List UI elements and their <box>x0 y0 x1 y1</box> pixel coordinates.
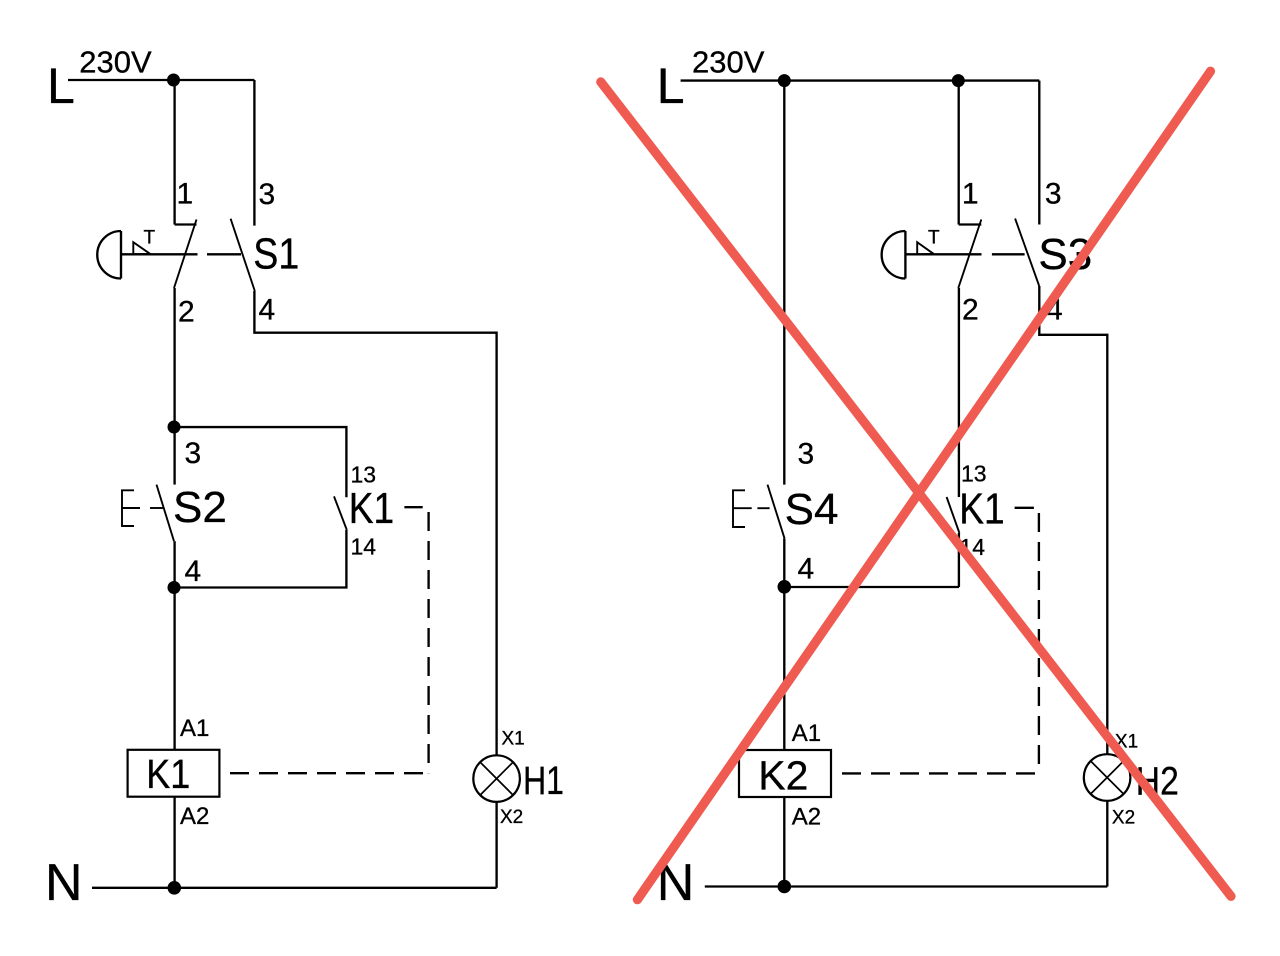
wire L rail (right) <box>681 79 1040 81</box>
svg-text:K2: K2 <box>758 753 808 799</box>
svg-text:K1: K1 <box>146 751 190 797</box>
wire S4 pin4 drop <box>783 538 785 587</box>
svg-text:H1: H1 <box>523 759 564 803</box>
junction node S4/K1 bottom <box>778 580 792 594</box>
link dash at K1 contact <box>404 506 422 508</box>
wire S2 pin4 drop <box>173 541 175 587</box>
turn-reset triangle (S1) <box>133 242 150 254</box>
red cross stroke 2 <box>637 71 1210 900</box>
pushbutton S1 NO contact blade <box>231 219 255 291</box>
svg-text:230V: 230V <box>692 45 765 80</box>
wire S1 pin2 drop <box>173 288 175 427</box>
junction node S2 top <box>168 421 181 434</box>
svg-text:3: 3 <box>185 437 202 470</box>
relay coil K2 box <box>739 750 831 797</box>
wire N rail (right) <box>705 885 1108 887</box>
wire S3 pin2 to K1 contact pin13 <box>958 288 960 497</box>
actuator link dash (S4) <box>757 507 769 509</box>
svg-text:X2: X2 <box>1112 808 1135 829</box>
pushbutton S1 NC contact blade <box>174 220 197 289</box>
wire K1 contact pin14 drop (right) <box>958 533 960 587</box>
svg-text:3: 3 <box>1045 178 1062 211</box>
svg-text:L: L <box>47 58 75 114</box>
svg-text:T: T <box>928 227 940 248</box>
svg-text:4: 4 <box>798 553 815 586</box>
dashed linkage vertical (right) <box>1038 513 1040 773</box>
wire L rail (left) <box>68 79 254 81</box>
wire S2 pin3 drop <box>173 427 175 485</box>
svg-text:K1: K1 <box>959 485 1005 534</box>
relay contact K1 blade <box>334 496 347 530</box>
dashed linkage vertical (K1) <box>427 512 429 773</box>
pushbutton S4 manual actuator E <box>733 490 752 527</box>
junction node L/S4 (right) <box>778 74 791 87</box>
pushbutton S4 NO blade <box>768 485 785 539</box>
pushbutton S3 NO contact blade <box>1015 219 1039 287</box>
wire S4 pin3 drop from L <box>783 81 785 485</box>
pushbutton S3 NC contact seat <box>959 223 982 225</box>
lamp H2 <box>1084 754 1131 801</box>
wire S1 pin3 drop <box>253 80 255 226</box>
actuator stem (S1) <box>121 253 198 255</box>
junction node L/S3 (right) <box>952 74 965 87</box>
wire lamp H1 bottom <box>495 802 497 888</box>
svg-text:A1: A1 <box>180 715 209 742</box>
wire S1 pin1 drop <box>173 80 175 225</box>
pushbutton S2 NO blade <box>157 485 175 542</box>
svg-text:1: 1 <box>177 178 194 211</box>
dashed linkage horizontal (right) <box>842 772 1035 774</box>
mechanical linkage dash (S3) <box>992 253 1025 255</box>
svg-text:2: 2 <box>962 294 979 327</box>
junction node S2 bottom <box>168 581 181 594</box>
link dash at K1 contact (right) <box>1015 507 1034 509</box>
svg-text:230V: 230V <box>79 45 152 80</box>
svg-text:X2: X2 <box>500 807 523 828</box>
junction node N (right) <box>778 880 792 894</box>
svg-text:3: 3 <box>259 178 276 211</box>
relay contact K1 blade (right) <box>947 497 960 533</box>
pushbutton S3 NC contact blade <box>958 220 981 289</box>
svg-text:A2: A2 <box>180 803 209 830</box>
turn-reset triangle (S3) <box>917 242 933 254</box>
svg-text:A2: A2 <box>792 804 821 831</box>
svg-text:A1: A1 <box>792 720 821 747</box>
wire S3 pin4 to lamp branch (right) <box>1039 286 1107 755</box>
svg-text:2: 2 <box>178 296 195 329</box>
dashed linkage horizontal (K1) <box>230 772 424 774</box>
mushroom head actuator (S3) <box>882 231 906 279</box>
svg-text:N: N <box>45 854 83 912</box>
wire branch bottom (right) <box>784 586 959 588</box>
svg-text:S2: S2 <box>173 483 227 532</box>
svg-text:S1: S1 <box>253 230 299 279</box>
svg-text:13: 13 <box>961 461 987 487</box>
pushbutton S1 NC contact seat <box>175 223 197 225</box>
wire coil K2 to N <box>783 797 785 887</box>
red cross stroke 1 <box>601 82 1231 896</box>
svg-text:3: 3 <box>798 438 815 471</box>
wire lamp H2 bottom <box>1106 801 1108 887</box>
svg-text:K1: K1 <box>349 484 395 533</box>
wire N rail (left) <box>92 887 497 889</box>
svg-text:S4: S4 <box>785 485 839 534</box>
svg-text:X1: X1 <box>502 729 525 750</box>
wire S1 pin4 to lamp branch <box>254 291 496 755</box>
junction node N (left) <box>168 881 182 895</box>
actuator stem (S3) <box>905 253 981 255</box>
svg-text:14: 14 <box>351 534 377 560</box>
pushbutton S2 manual actuator E <box>122 490 140 526</box>
wire K1 contact pin14 / parallel branch bottom <box>173 530 346 588</box>
relay coil K1 box <box>128 750 220 797</box>
svg-text:L: L <box>657 58 685 114</box>
wire to coil K1 A1 <box>173 588 175 750</box>
mechanical linkage dash (S1) <box>207 253 241 255</box>
svg-text:4: 4 <box>185 555 202 588</box>
wire coil K1 to N <box>173 797 175 888</box>
svg-text:T: T <box>144 227 156 248</box>
wire S3 pin1 drop <box>958 81 960 225</box>
svg-text:4: 4 <box>259 294 276 327</box>
wire parallel branch top <box>173 427 346 497</box>
mushroom head actuator (S1) <box>97 231 121 279</box>
svg-text:1: 1 <box>962 178 979 211</box>
actuator link dash (S2) <box>150 507 163 509</box>
junction node L/S1 (left) <box>167 74 180 87</box>
wire to coil K2 A1 <box>783 587 785 750</box>
lamp H1 <box>473 755 520 802</box>
wire S3 pin3 drop <box>1038 81 1040 225</box>
